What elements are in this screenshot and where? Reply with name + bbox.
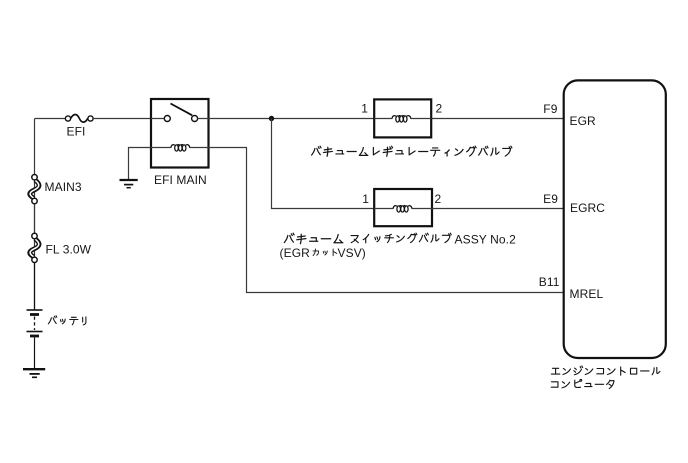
wire: valve1 coil leads xyxy=(374,118,431,120)
vacuum switching valve No.2 box xyxy=(374,189,432,226)
fusible link MAIN3 xyxy=(30,175,39,204)
ECU: engine control computer box xyxy=(564,80,666,358)
svg-text:EFI: EFI xyxy=(67,125,86,139)
svg-text:F9: F9 xyxy=(543,102,557,116)
wire: MAIN3 to FL 3.0W xyxy=(34,204,36,233)
label engine control computer (katakana line 1) xyxy=(551,366,660,375)
svg-text:2: 2 xyxy=(436,102,443,116)
svg-text:ASSY No.2: ASSY No.2 xyxy=(455,233,517,247)
ground: relay ground xyxy=(120,180,138,188)
svg-text:B11: B11 xyxy=(539,275,560,289)
label engine control computer (katakana line 2) xyxy=(551,379,614,388)
svg-text:E9: E9 xyxy=(543,192,558,206)
label battery (katakana batteri) xyxy=(48,316,86,325)
svg-text:1: 1 xyxy=(361,102,368,116)
relay coil xyxy=(171,145,190,152)
svg-text:(EGR: (EGR xyxy=(280,246,311,260)
svg-text:MREL: MREL xyxy=(570,287,604,301)
fusible link FL 3.0W xyxy=(30,233,39,262)
wire: relay output to VSV1 and ECU (row F9) xyxy=(209,118,564,120)
valve 1 coil xyxy=(392,116,411,123)
label vacuum regulating valve (katakana) xyxy=(312,146,512,156)
svg-text:1: 1 xyxy=(362,192,369,206)
svg-text:EGR: EGR xyxy=(570,114,597,128)
node: junction at x=271.7 xyxy=(269,116,274,121)
svg-text:EFI MAIN: EFI MAIN xyxy=(154,173,207,187)
svg-text:FL 3.0W: FL 3.0W xyxy=(46,243,92,257)
wire: junction down to VSV2 row xyxy=(272,119,375,209)
wire: coil leads inside relay xyxy=(151,147,209,149)
svg-text:VSV): VSV) xyxy=(338,246,366,260)
svg-text:2: 2 xyxy=(435,192,442,206)
wire: fuse EFI to relay xyxy=(93,118,151,120)
relay EFI MAIN box xyxy=(151,99,209,168)
wire: battery positive rail, left vertical bus x=35 xyxy=(35,119,66,310)
ground: battery ground xyxy=(23,369,45,377)
svg-text:EGRC: EGRC xyxy=(570,201,605,215)
label vacuum switching valve ASSY No.2 (katakana) xyxy=(284,233,343,244)
wire: VSV2 to ECU (row E9) xyxy=(432,208,564,210)
wire: switch pins inside relay xyxy=(151,118,209,120)
wire: relay coil to ground xyxy=(129,148,152,180)
svg-text:MAIN3: MAIN3 xyxy=(45,180,82,194)
valve 2 coil xyxy=(393,206,412,213)
battery xyxy=(27,263,43,368)
wire: valve2 coil leads xyxy=(374,208,432,210)
fuse EFI xyxy=(65,114,93,122)
wire: relay coil to ECU MREL (row B11) xyxy=(209,148,564,293)
relay switch contacts xyxy=(164,104,197,122)
vacuum regulating valve box xyxy=(374,99,431,137)
